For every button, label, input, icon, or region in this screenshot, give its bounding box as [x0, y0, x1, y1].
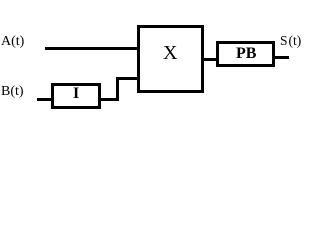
wire filter output	[275, 56, 289, 59]
node (t) output label	[289, 34, 302, 48]
integrator block I	[51, 83, 101, 109]
wire integrator output stub	[101, 98, 119, 101]
wire jog vertical	[116, 77, 119, 101]
wire B(t) to integrator	[37, 98, 51, 101]
node A(t) input label	[1, 35, 24, 49]
node S output label	[280, 34, 288, 48]
label I	[73, 86, 79, 102]
wire jog top horizontal to multiplier	[116, 77, 137, 80]
passband filter block PB	[216, 41, 275, 67]
wire multiplier to passband filter	[204, 58, 216, 61]
node B(t) input label	[1, 85, 24, 99]
wire A(t) to multiplier	[45, 47, 137, 50]
multiplier block X	[137, 25, 204, 93]
label X	[163, 43, 177, 63]
label PB	[236, 46, 256, 62]
